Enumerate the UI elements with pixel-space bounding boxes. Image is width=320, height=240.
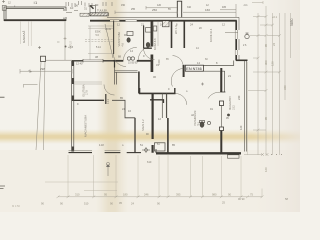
svg-text:90 90: 90 90 <box>238 197 245 201</box>
dimension line y71 <box>20 70 72 72</box>
ticks above entry <box>89 2 112 7</box>
tick slashes bottom <box>57 196 264 199</box>
svg-text:95: 95 <box>264 116 268 120</box>
svg-text:160: 160 <box>205 8 210 12</box>
wall x221 below y67 <box>220 68 222 92</box>
left guide line <box>45 181 118 183</box>
door frame x114.5 <box>114 61 116 68</box>
door arc x221 <box>208 92 221 98</box>
svg-text:395: 395 <box>176 192 181 196</box>
svg-text:120: 120 <box>271 61 275 66</box>
right margin dim line D <box>279 13 281 155</box>
svg-text:310: 310 <box>75 192 80 196</box>
WC toilet <box>146 42 150 47</box>
partition x153 lower <box>152 94 154 153</box>
step outline with stub <box>24 84 38 87</box>
svg-text:M 1:50: M 1:50 <box>12 204 20 208</box>
svg-text:150: 150 <box>121 4 126 7</box>
svg-text:+2.5: +2.5 <box>68 45 74 49</box>
sink bottom room <box>207 121 210 124</box>
interior wall y67: left end cap <box>183 65 185 77</box>
svg-text:510: 510 <box>84 202 89 206</box>
scattered tiny interior marks <box>76 23 243 148</box>
partition x151 upper (hatched look) <box>151 21 154 73</box>
svg-text:MAGAMIST.: MAGAMIST. <box>228 95 232 110</box>
closet rect above bottom wall <box>155 143 166 151</box>
hall south wall y71.5 <box>115 71 138 73</box>
right outer wall upper segment 2 <box>235 39 237 50</box>
svg-text:340: 340 <box>283 85 287 90</box>
WC door arc <box>144 49 155 60</box>
scan fold vertical streak <box>96 0 128 212</box>
hall corner wall x139 <box>138 72 140 94</box>
svg-text:+0.1: +0.1 <box>272 15 278 19</box>
svg-text:980: 980 <box>212 192 217 196</box>
dots continuing right <box>271 154 282 156</box>
wall y60 bathroom bottom <box>114 60 124 62</box>
wall x221 bottom dark <box>220 131 222 153</box>
bedroom door frame x105 <box>105 94 107 104</box>
tick on dim line <box>29 70 32 74</box>
witness line below garage right end <box>57 22 67 61</box>
main top wall outer line <box>107 16 239 18</box>
svg-text:KODA 8.6: KODA 8.6 <box>153 38 157 50</box>
right wall window gap 2 <box>235 50 237 55</box>
garage outer outline <box>4 7 66 21</box>
duct double line below y93.5 <box>162 94 166 119</box>
drain symbol left of bottom wall <box>142 147 150 153</box>
door arc partition x151 <box>138 47 151 60</box>
interior thin guide lines in hall <box>74 22 158 84</box>
right margin dim line F <box>290 13 292 58</box>
corridor wall x220.8 <box>220 72 222 92</box>
svg-text:17.8: 17.8 <box>86 90 89 95</box>
svg-text:MAGAMISTUBA: MAGAMISTUBA <box>84 115 88 137</box>
svg-text:240: 240 <box>237 95 241 100</box>
window sill line right <box>225 32 238 34</box>
main top wall inner dark: left piece <box>90 20 110 22</box>
garage corner detail top-left <box>2 6 6 11</box>
sauna north wall y93.5 <box>139 92 176 94</box>
svg-text:TUULEK.: TUULEK. <box>97 9 108 13</box>
scan fold horizontal yellow band <box>0 129 300 144</box>
left edge dash marks <box>0 96 5 98</box>
tick slashes <box>257 15 282 131</box>
washbasin bath <box>127 32 133 36</box>
main top wall inner dark: mid piece <box>119 20 125 22</box>
stove circles <box>127 57 130 60</box>
svg-text:14.3: 14.3 <box>106 98 110 104</box>
right margin shading <box>252 0 300 212</box>
cross mark <box>38 46 41 49</box>
svg-text:5850: 5850 <box>290 18 294 26</box>
svg-text:95: 95 <box>104 192 107 196</box>
sauna bench bar <box>150 100 164 103</box>
scattered tiny texts upper rooms <box>96 27 247 147</box>
interior wall x114.5-116.5 double <box>115 61 117 85</box>
left wall piers <box>72 61 74 152</box>
svg-text:5 14: 5 14 <box>96 46 101 49</box>
svg-text:GARAAŽ: GARAAŽ <box>21 30 26 43</box>
door arc bedroom1 <box>104 85 115 96</box>
svg-text:90: 90 <box>228 192 231 196</box>
right outer wall upper segment 3 <box>235 55 237 61</box>
bedroom top wall y100.5 <box>74 99 104 101</box>
door arc hall y61 <box>114 54 127 67</box>
hatched pier below top wall <box>163 21 170 27</box>
svg-text:255: 255 <box>131 8 136 11</box>
svg-text:180: 180 <box>123 192 128 196</box>
right margin dim line A <box>257 13 259 155</box>
WC washbasin <box>146 28 151 33</box>
corridor jog: horizontal y118 <box>112 100 135 118</box>
porch edge line left leg <box>36 62 41 150</box>
WC room south wall <box>144 47 152 49</box>
top specks above wall <box>121 4 248 11</box>
svg-text:4.18: 4.18 <box>99 144 104 147</box>
right wall window gap lines <box>235 30 237 39</box>
porch post square <box>41 56 46 61</box>
kitchen fixture near partition <box>153 26 156 31</box>
interior wall y67: lower line turning down <box>204 71 225 92</box>
step outside bottom right <box>228 155 240 158</box>
bottom warm tint <box>0 150 300 212</box>
right outer wall outer line <box>238 17 240 30</box>
main top wall inner dark: right piece <box>137 20 237 22</box>
interior wall x168 bottom <box>167 118 169 153</box>
door arc entry diag <box>105 24 113 58</box>
interior wall x113 upper <box>113 21 115 55</box>
garage bottom wall dark <box>4 19 66 21</box>
wall end ticks y93.5 <box>140 88 175 94</box>
window in y61 wall <box>83 60 103 62</box>
svg-text:120: 120 <box>157 4 162 7</box>
right margin dim line C <box>272 13 274 155</box>
svg-text:75: 75 <box>250 192 253 196</box>
left outer wall double <box>72 61 74 152</box>
WC room west wall <box>143 26 145 49</box>
hatched porch bar <box>80 13 89 16</box>
EN label box <box>185 65 203 71</box>
porch edge line right leg <box>44 62 46 150</box>
chimney <box>177 1 181 17</box>
bottom wall right end vertical <box>155 149 157 153</box>
svg-text:KOOK 10.4: KOOK 10.4 <box>209 28 213 42</box>
svg-text:95: 95 <box>264 43 268 47</box>
top short line <box>252 1 263 4</box>
svg-text:610: 610 <box>147 160 152 164</box>
svg-text:VANNITUBA: VANNITUBA <box>117 32 121 47</box>
bottom wall right thick <box>156 152 241 154</box>
window 2 in top wall <box>126 20 137 22</box>
svg-text:300: 300 <box>264 60 268 65</box>
svg-text:298: 298 <box>40 67 45 71</box>
wall y61 left piece <box>72 60 83 62</box>
svg-text:250: 250 <box>152 8 157 12</box>
entry porch post box <box>90 5 95 13</box>
closet lines left room <box>74 82 102 84</box>
svg-text:24: 24 <box>272 42 276 46</box>
svg-text:12 40: 12 40 <box>76 62 83 66</box>
porch edge line to wall <box>46 59 73 61</box>
svg-text:120: 120 <box>239 125 243 130</box>
top-left level cross <box>2 0 5 3</box>
interior wall y67: upper line to corner up <box>204 61 234 66</box>
entry hatched wall bar <box>90 13 108 16</box>
tick arrows <box>253 16 266 18</box>
corridor jog: vertical x135 <box>134 118 136 153</box>
svg-text:15 05: 15 05 <box>105 28 112 31</box>
right margin dim line E <box>284 13 286 100</box>
short upper dim line <box>84 190 117 192</box>
garage inner outline <box>6 9 64 20</box>
small dark dot right mid <box>227 114 229 116</box>
svg-text:10.2: 10.2 <box>233 105 236 110</box>
bottom wall bedroom segments <box>69 152 93 154</box>
right margin dim line B <box>265 6 267 155</box>
svg-text:15 05 90: 15 05 90 <box>128 62 138 65</box>
svg-text:60: 60 <box>95 3 99 7</box>
corner specks <box>8 2 16 8</box>
corridor wall cap y92 <box>220 91 225 93</box>
window 1 in top wall <box>110 20 119 22</box>
svg-text:310: 310 <box>187 6 192 9</box>
ticks above garage right <box>66 1 82 6</box>
svg-text:↓0.1: ↓0.1 <box>243 4 248 7</box>
door handle circle right <box>245 34 249 38</box>
svg-text:120: 120 <box>264 167 268 172</box>
wall y60 stub to right <box>236 59 248 61</box>
X ticks at y154.5 <box>261 153 269 156</box>
garage right end cap <box>64 9 66 21</box>
right outer wall upper segment 1 <box>235 21 237 30</box>
door arc hall->bath <box>123 47 137 61</box>
door arc sauna <box>176 94 187 105</box>
door post squares x221 <box>220 101 224 106</box>
door arc y67 wall <box>171 69 183 87</box>
kitchen counter line <box>153 22 158 46</box>
svg-text:SAUN 4.2: SAUN 4.2 <box>141 119 145 131</box>
svg-text:EN N746: EN N746 <box>186 67 201 71</box>
right outer wall lower double line <box>245 61 247 152</box>
door arc EN small <box>173 56 184 65</box>
svg-text:246: 246 <box>144 192 149 196</box>
wall y61 right piece <box>103 60 114 62</box>
main bottom dim line <box>58 196 262 198</box>
svg-text:405: 405 <box>222 6 227 9</box>
benchmark symbol <box>106 162 110 176</box>
bottom numbers row below dim lines <box>41 197 288 206</box>
WC closet walls <box>171 21 173 49</box>
witness lines below garage <box>21 22 32 47</box>
wc toilet bottom <box>200 122 204 128</box>
toilet bath <box>127 38 130 43</box>
